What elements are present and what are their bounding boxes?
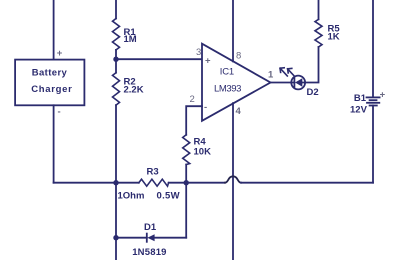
wire: charger negative lead (box bottom down to ground rail) <box>53 105 55 182</box>
svg-text:-: - <box>204 102 207 113</box>
wire: op-amp output pin 1 to LED <box>271 82 295 84</box>
node: D1 left junction <box>113 235 118 240</box>
resistor R4 <box>183 135 211 165</box>
svg-text:LM393: LM393 <box>214 83 241 94</box>
svg-text:8: 8 <box>236 51 241 62</box>
svg-text:+: + <box>380 90 386 101</box>
resistor R3 <box>118 167 180 202</box>
svg-text:IC1: IC1 <box>220 67 234 78</box>
svg-text:Battery: Battery <box>32 67 68 78</box>
svg-text:D1: D1 <box>144 222 157 233</box>
wire: ground rail segment (hop to battery) <box>241 182 373 184</box>
wire: top edge down to R5 <box>318 0 320 19</box>
resistor R2 <box>113 73 144 105</box>
wire: node A to R2 top <box>115 59 117 72</box>
node A (R1/R2/pin3 junction) <box>113 57 118 62</box>
wire: top feed to R1 <box>115 0 117 19</box>
wire: battery bottom to ground rail <box>372 106 374 183</box>
node: R2/rail junction <box>113 180 118 185</box>
svg-text:R3: R3 <box>147 167 159 178</box>
battery B1 <box>350 90 386 116</box>
svg-text:2: 2 <box>190 94 195 105</box>
wire: pin 8 (top edge down to op-amp) <box>232 0 234 61</box>
svg-text:12V: 12V <box>350 104 368 115</box>
wire: charger positive lead (top edge to box) <box>53 0 55 60</box>
svg-text:Charger: Charger <box>31 84 72 95</box>
svg-text:1K: 1K <box>328 32 340 43</box>
wire: ground rail left segment (charger to R3) <box>54 182 139 184</box>
svg-text:1M: 1M <box>124 34 137 45</box>
svg-text:4: 4 <box>236 106 242 117</box>
svg-text:2.2K: 2.2K <box>124 84 144 95</box>
wire: rail down to diode D1 branch <box>115 183 117 238</box>
svg-text:+: + <box>57 48 63 59</box>
svg-text:B1: B1 <box>354 93 367 104</box>
wire hop over pin-4 line <box>225 176 241 182</box>
Battery Charger box <box>15 60 84 106</box>
svg-text:0.5W: 0.5W <box>157 191 180 202</box>
diode D1 <box>116 222 186 258</box>
wire: ground rail segment (R3 to hop) <box>169 182 225 184</box>
op-amp U1 (IC1 LM393) <box>202 44 271 121</box>
wire: R1 bottom to node A <box>115 50 117 59</box>
svg-text:-: - <box>58 107 61 118</box>
node: R4/rail junction <box>184 180 189 185</box>
svg-text:D2: D2 <box>307 87 319 98</box>
svg-text:1N5819: 1N5819 <box>132 247 166 258</box>
svg-text:+: + <box>205 56 211 67</box>
wire: R4 bottom to ground rail <box>185 165 187 183</box>
svg-text:10K: 10K <box>194 147 212 158</box>
wire: below D1 node to bottom edge <box>115 238 117 260</box>
wire: D1 right end up to rail node <box>185 183 187 238</box>
wire: node A to op-amp pin 3 <box>116 58 202 60</box>
resistor R5 <box>315 19 340 47</box>
svg-text:3: 3 <box>196 47 201 58</box>
wire: LED to R5 bottom <box>302 47 319 83</box>
svg-text:1: 1 <box>268 70 274 81</box>
LED D2 <box>280 68 319 98</box>
wire: top edge down to battery B1 <box>372 0 374 97</box>
wire: pin 2 to R4 top <box>186 106 202 135</box>
wire: pin 4 (op-amp down across rail to bottom edge) <box>232 103 234 260</box>
wire: R2 bottom to ground rail <box>115 105 117 183</box>
svg-text:1Ohm: 1Ohm <box>118 191 145 202</box>
resistor R1 <box>113 19 137 50</box>
